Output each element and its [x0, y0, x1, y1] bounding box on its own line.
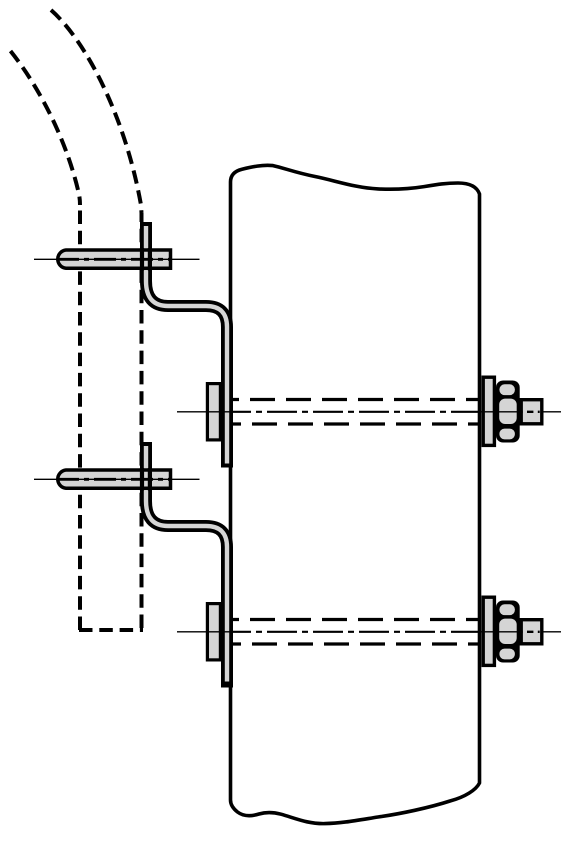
middle bolt hidden shaft bottom line (dashed) — [233, 422, 479, 425]
lower bolt thin centerline segments — [177, 631, 561, 633]
upper Z-bracket (gray core) — [146, 226, 227, 464]
lower flange bolt — [34, 468, 200, 491]
dash-dot axis over bolt — [57, 258, 171, 261]
thin centerline — [34, 258, 200, 260]
lower bolt tip — [521, 620, 542, 644]
upper Z-bracket (black outline band) — [146, 222, 227, 468]
middle bolt tip — [521, 400, 542, 424]
phantom tube outline left dashed curve — [11, 51, 81, 205]
phantom tube outline right dashed curve — [51, 10, 142, 213]
phantom tube bottom dashed line — [79, 628, 143, 632]
middle bolt thin centerline segments — [177, 411, 561, 413]
dash-dot axis over bolt — [57, 478, 171, 481]
middle bolt hex nut — [496, 381, 520, 443]
member (large vertical bar) — [231, 165, 480, 823]
lower bolt right washer — [483, 597, 494, 665]
thin centerline — [34, 478, 200, 480]
phantom tube outline left dashed vertical — [78, 205, 82, 630]
lower bolt hidden shaft top line (dashed) — [233, 618, 479, 621]
phantom tube outline right dashed vertical — [140, 213, 144, 630]
flange edges over bolt — [142, 248, 150, 271]
lower Z-bracket (black outline band) — [146, 442, 227, 688]
lower Z-bracket (gray core) — [146, 446, 227, 682]
middle bolt centerline inside member (dash-dot) — [233, 411, 479, 413]
lower bolt hex nut — [496, 601, 520, 663]
flange edges over bolt — [142, 468, 150, 491]
lower bolt centerline inside member (dash-dot) — [233, 631, 479, 633]
middle bolt hidden shaft top line (dashed) — [233, 398, 479, 401]
upper flange bolt — [34, 248, 200, 271]
lower bolt hidden shaft bottom line (dashed) — [233, 642, 479, 645]
middle bolt right washer — [483, 377, 494, 445]
lower bolt left plate washer — [207, 604, 220, 660]
middle bolt left plate washer — [207, 384, 220, 440]
